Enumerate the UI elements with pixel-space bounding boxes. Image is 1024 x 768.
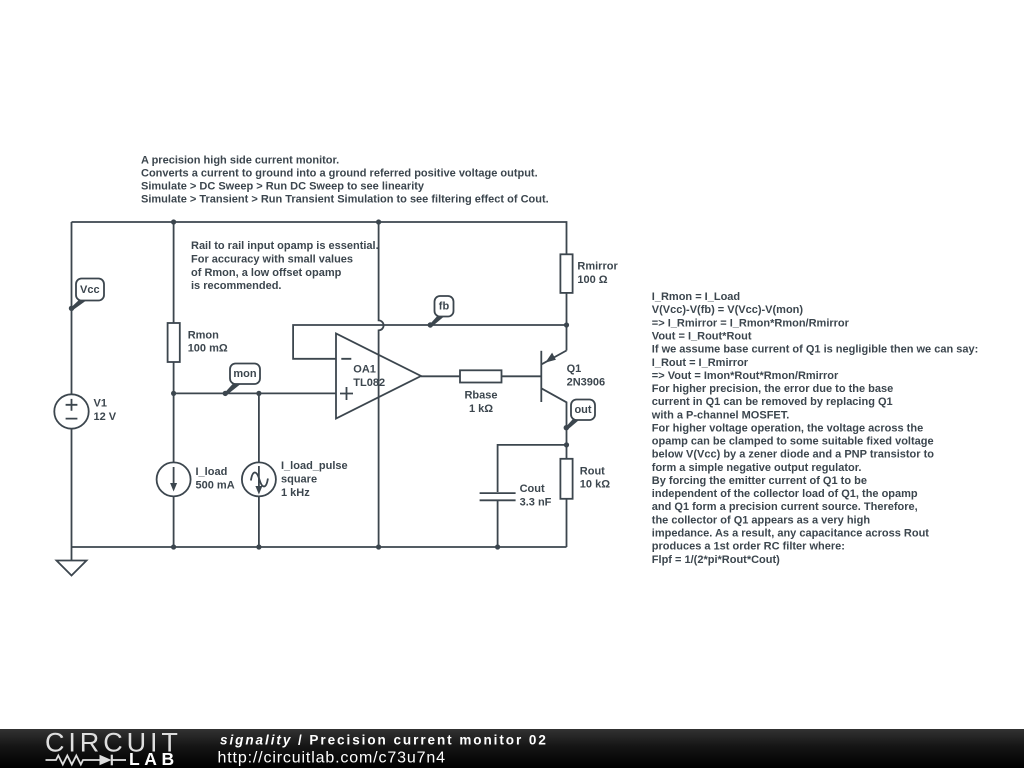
svg-text:500 mA: 500 mA	[196, 479, 235, 491]
annotation: top description text	[141, 155, 549, 206]
svg-text:For higher voltage operation,: For higher voltage operation, the voltag…	[652, 422, 923, 434]
node: junction dots on top rail	[171, 219, 176, 224]
svg-text:mon: mon	[233, 368, 257, 380]
svg-text:If we assume base current of Q: If we assume base current of Q1 is negli…	[652, 344, 978, 356]
wire: bottom ground rail	[72, 546, 567, 548]
svg-text:TL082: TL082	[353, 377, 385, 389]
svg-text:Converts a current to ground i: Converts a current to ground into a grou…	[141, 168, 538, 180]
svg-text:1 kHz: 1 kHz	[281, 487, 310, 499]
svg-text:=> I_Rmirror = I_Rmon*Rmon/Rmi: => I_Rmirror = I_Rmon*Rmon/Rmirror	[652, 317, 850, 329]
svg-text:I_Rout = I_Rmirror: I_Rout = I_Rmirror	[652, 357, 749, 369]
svg-text:fb: fb	[439, 301, 450, 313]
svg-text:out: out	[574, 404, 591, 416]
svg-text:Vcc: Vcc	[80, 284, 100, 296]
svg-text:Q1: Q1	[567, 363, 582, 375]
svg-text:signality / Precision current: signality / Precision current monitor 02	[220, 732, 548, 747]
label: Rmon 100 mOhm	[188, 330, 228, 355]
svg-text:produces a 1st order RC filter: produces a 1st order RC filter where:	[652, 541, 845, 553]
svg-text:Flpf = 1/(2*pi*Rout*Cout): Flpf = 1/(2*pi*Rout*Cout)	[652, 554, 780, 566]
svg-text:impedance. As a result, any ca: impedance. As a result, any capacitance …	[652, 528, 929, 540]
wire: top Vcc rail with right drop to Rmirror	[72, 222, 567, 254]
wire: inverting input feedback net to Q1 emitter node	[293, 325, 566, 359]
label: I_load_pulse square 1 kHz	[281, 460, 348, 499]
node: junction dots on bottom rail	[171, 544, 176, 549]
wire: branch to Cout	[498, 445, 567, 492]
label: Rmirror 100 Ohm	[577, 260, 618, 286]
logo: resistor-diode symbol	[46, 755, 127, 766]
svg-text:Simulate > DC Sweep > Run DC S: Simulate > DC Sweep > Run DC Sweep to se…	[141, 180, 425, 192]
callout: fb net flag	[428, 296, 454, 328]
svg-text:Rmirror: Rmirror	[577, 260, 618, 272]
svg-text:opamp can be clamped to some s: opamp can be clamped to some suitable fi…	[652, 436, 934, 448]
svg-text:For higher precision, the erro: For higher precision, the error due to t…	[652, 383, 893, 395]
label: Rbase 1 kOhm	[464, 389, 497, 415]
svg-text:Rout: Rout	[580, 466, 605, 478]
svg-text:2N3906: 2N3906	[567, 377, 606, 389]
wire: left branch from rail to V1 top	[71, 222, 73, 394]
svg-text:below V(Vcc) by a zener diode: below V(Vcc) by a zener diode and a PNP …	[652, 449, 934, 461]
svg-text:I_Rmon = I_Load: I_Rmon = I_Load	[652, 291, 740, 303]
current source I_load_pulse	[242, 393, 276, 547]
svg-text:square: square	[281, 474, 317, 486]
node: fb / Rmirror / emitter junction	[564, 322, 569, 327]
svg-text:I_load: I_load	[196, 466, 228, 478]
node: junction dots on mon wire	[171, 391, 176, 396]
svg-text:form a simple negative output: form a simple negative output regulator.	[652, 462, 862, 474]
svg-text:OA1: OA1	[353, 364, 376, 376]
capacitor Cout	[480, 493, 516, 547]
svg-text:LAB: LAB	[129, 749, 179, 768]
wire: op-amp supply from top rail through hop to bottom rail	[379, 222, 384, 547]
op-amp OA1 triangle body	[336, 334, 421, 419]
resistor Rmirror	[560, 254, 572, 350]
svg-text:http://circuitlab.com/c73u7n4: http://circuitlab.com/c73u7n4	[218, 749, 446, 766]
svg-text:V(Vcc)-V(fb) = V(Vcc)-V(mon): V(Vcc)-V(fb) = V(Vcc)-V(mon)	[652, 304, 804, 316]
svg-text:with a P-channel MOSFET.: with a P-channel MOSFET.	[651, 409, 790, 421]
wire: Rbase to Q1 base	[502, 375, 542, 377]
svg-text:By forcing the emitter current: By forcing the emitter current of Q1 to …	[652, 475, 867, 487]
footer bar	[0, 729, 1024, 768]
label: OA1 TL082	[353, 364, 385, 390]
svg-text:100 Ω: 100 Ω	[577, 274, 607, 286]
svg-text:3.3 nF: 3.3 nF	[520, 497, 552, 509]
callout: Vcc net flag	[69, 279, 104, 311]
svg-text:current in Q1 can be removed b: current in Q1 can be removed by replacin…	[652, 396, 893, 408]
svg-text:independent of the collector l: independent of the collector load of Q1,…	[652, 488, 918, 500]
annotation: opamp note text	[191, 240, 379, 292]
svg-text:the collector of Q1 appears as: the collector of Q1 appears as a very hi…	[652, 514, 871, 526]
label: Q1 2N3906	[567, 363, 606, 389]
annotation: equations and explanation text	[651, 291, 978, 566]
node: out / Cout branch junction	[564, 442, 569, 447]
svg-text:10 kΩ: 10 kΩ	[580, 479, 610, 491]
svg-text:I_load_pulse: I_load_pulse	[281, 460, 348, 472]
callout: mon net flag	[223, 364, 260, 397]
svg-text:Vout = I_Rout*Rout: Vout = I_Rout*Rout	[652, 331, 752, 343]
svg-text:=> Vout = Imon*Rout*Rmon/Rmirr: => Vout = Imon*Rout*Rmon/Rmirror	[652, 370, 839, 382]
svg-text:For accuracy with small values: For accuracy with small values	[191, 254, 353, 266]
label: V1 12 V	[94, 397, 117, 423]
svg-text:is recommended.: is recommended.	[191, 280, 281, 292]
svg-text:V1: V1	[94, 397, 107, 409]
svg-text:Rmon: Rmon	[188, 330, 219, 342]
svg-text:100 mΩ: 100 mΩ	[188, 343, 228, 355]
label: I_load 500 mA	[196, 466, 235, 491]
svg-text:of Rmon, a low offset opamp: of Rmon, a low offset opamp	[191, 267, 342, 279]
svg-text:Rail to rail input opamp is es: Rail to rail input opamp is essential.	[191, 240, 379, 252]
label: Cout 3.3 nF	[520, 483, 552, 509]
current source I_load	[157, 393, 191, 547]
wire: op-amp output to Rbase	[421, 375, 460, 377]
svg-text:A precision high side current: A precision high side current monitor.	[141, 155, 339, 167]
resistor Rout	[560, 459, 572, 547]
svg-text:12 V: 12 V	[94, 411, 117, 423]
ground symbol	[57, 547, 87, 576]
svg-text:Rbase: Rbase	[464, 389, 497, 401]
resistor Rbase	[460, 370, 502, 382]
svg-text:and Q1 form a precision curren: and Q1 form a precision current source. …	[652, 501, 918, 513]
op-amp input polarity marks	[340, 359, 353, 400]
svg-text:1 kΩ: 1 kΩ	[469, 403, 493, 415]
label: Rout 10 kOhm	[580, 466, 610, 491]
callout: out net flag	[564, 400, 595, 431]
voltage source V1	[54, 394, 88, 428]
wire: mon net horizontal to op-amp + input	[174, 392, 336, 394]
svg-text:Simulate > Transient > Run Tra: Simulate > Transient > Run Transient Sim…	[141, 193, 549, 205]
svg-text:Cout: Cout	[520, 483, 545, 495]
transistor Q1 (PNP 2N3906)	[541, 351, 566, 459]
wire: V1 bottom to ground rail	[71, 429, 73, 547]
resistor Rmon	[168, 222, 180, 393]
